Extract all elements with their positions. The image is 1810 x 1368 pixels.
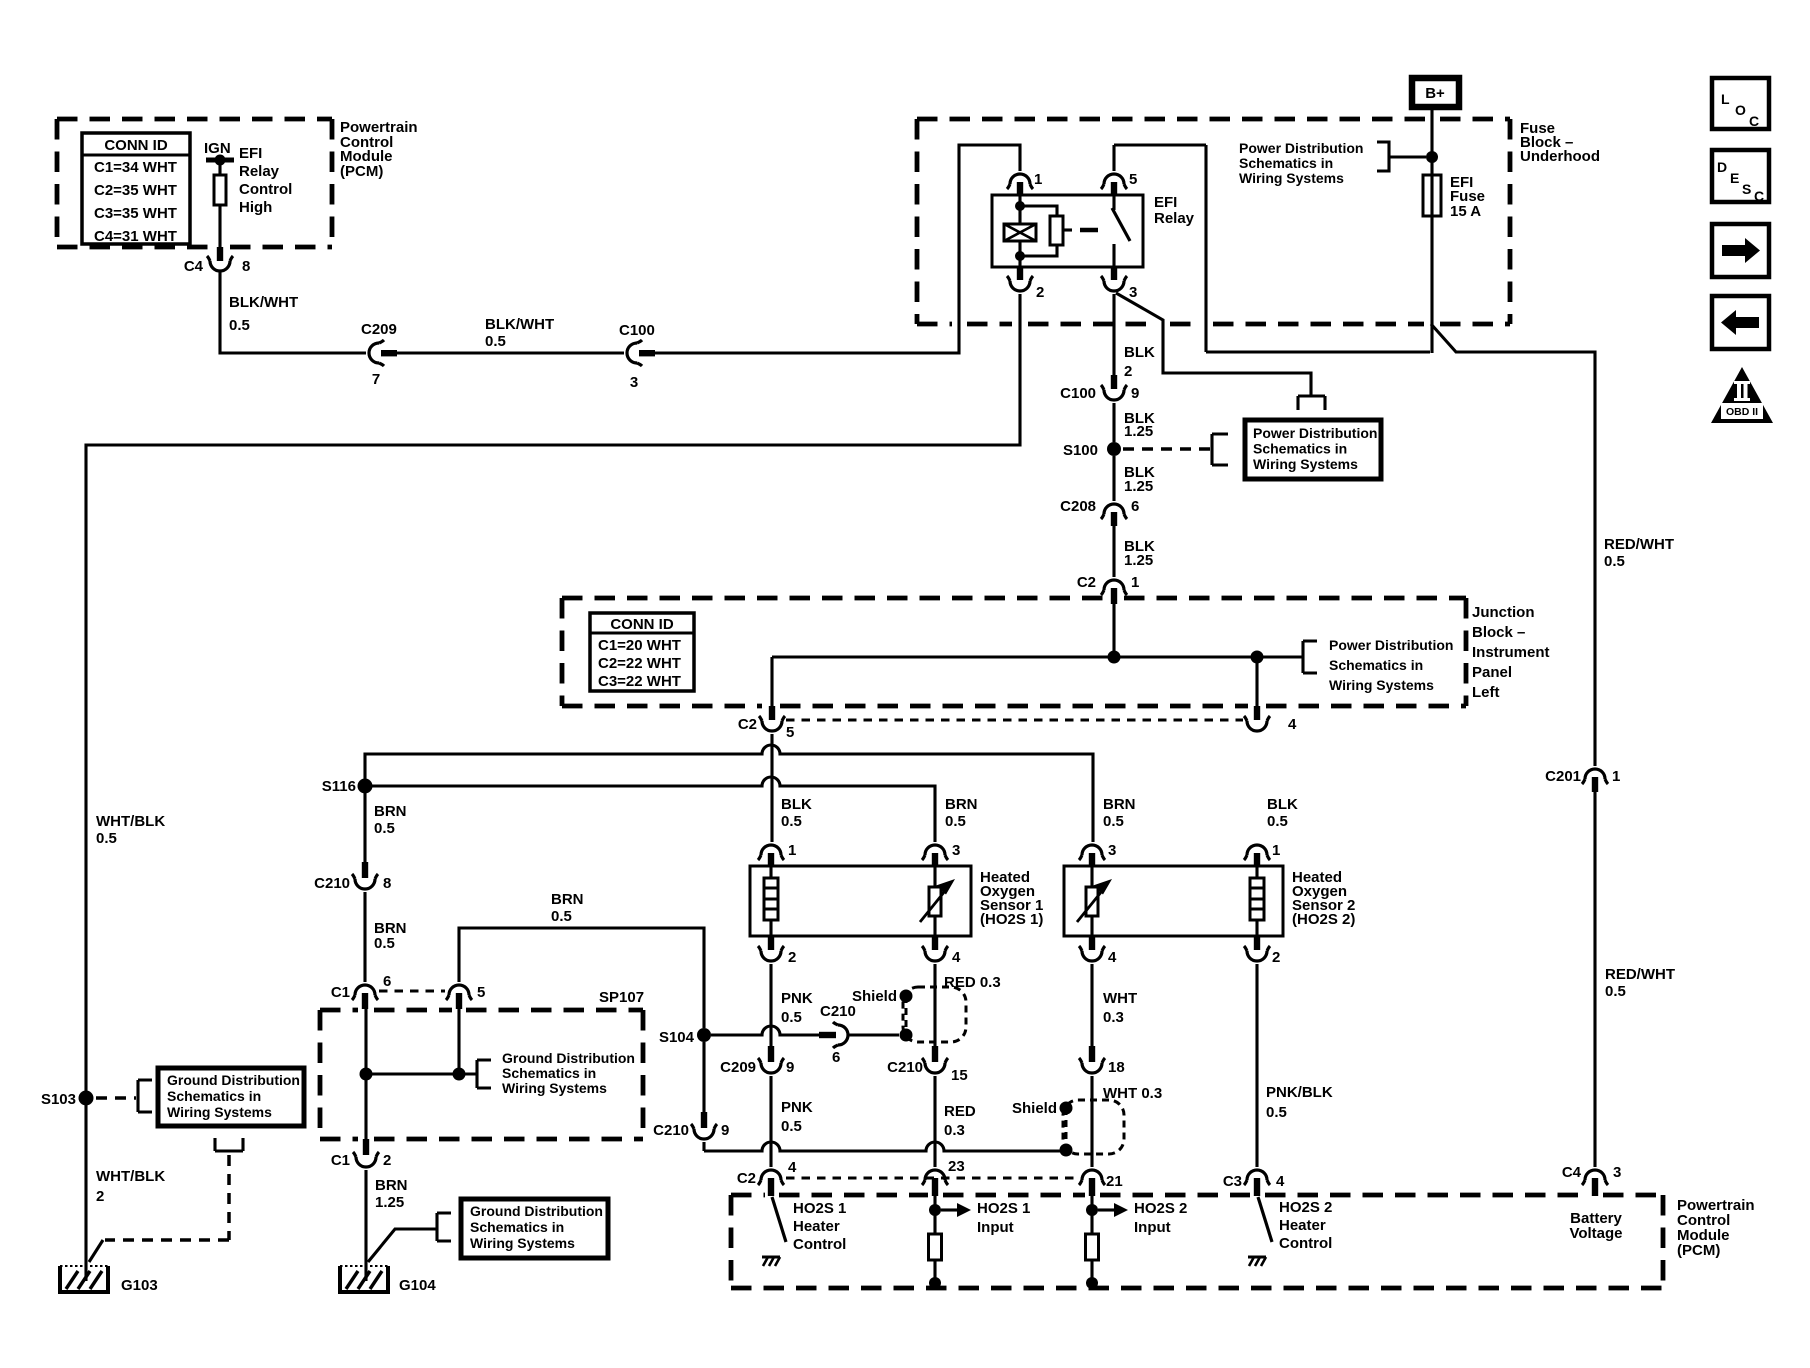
svg-text:RED 0.3: RED 0.3 <box>944 974 1001 991</box>
svg-text:18: 18 <box>1108 1059 1125 1076</box>
svg-text:WHT/BLK: WHT/BLK <box>96 1168 165 1185</box>
svg-text:Wiring Systems: Wiring Systems <box>167 1104 272 1120</box>
svg-text:S104: S104 <box>659 1029 695 1046</box>
svg-text:6: 6 <box>832 1049 840 1066</box>
svg-text:Left: Left <box>1472 684 1500 701</box>
svg-text:CONN ID: CONN ID <box>104 137 168 154</box>
svg-text:2: 2 <box>1124 363 1132 380</box>
svg-text:S100: S100 <box>1063 442 1098 459</box>
svg-text:WHT: WHT <box>1103 990 1137 1007</box>
svg-text:Schematics in: Schematics in <box>502 1065 596 1081</box>
svg-text:0.5: 0.5 <box>781 1118 802 1135</box>
svg-text:Relay: Relay <box>1154 210 1195 227</box>
svg-text:0.5: 0.5 <box>1605 983 1626 1000</box>
svg-text:0.5: 0.5 <box>945 813 966 830</box>
svg-text:S116: S116 <box>322 778 356 795</box>
svg-text:Heater: Heater <box>1279 1217 1326 1234</box>
svg-text:0.5: 0.5 <box>229 317 250 334</box>
svg-text:Wiring Systems: Wiring Systems <box>502 1080 607 1096</box>
svg-text:Power Distribution: Power Distribution <box>1239 140 1363 156</box>
svg-text:RED/WHT: RED/WHT <box>1604 536 1674 553</box>
svg-text:1.25: 1.25 <box>1124 423 1153 440</box>
svg-text:Instrument: Instrument <box>1472 644 1550 661</box>
svg-text:HO2S 2: HO2S 2 <box>1279 1199 1332 1216</box>
svg-text:RED/WHT: RED/WHT <box>1605 966 1675 983</box>
svg-text:BRN: BRN <box>1103 796 1136 813</box>
svg-text:1.25: 1.25 <box>375 1194 404 1211</box>
svg-text:Schematics in: Schematics in <box>1253 441 1347 457</box>
svg-text:O: O <box>1735 102 1746 118</box>
svg-text:3: 3 <box>952 842 960 859</box>
svg-text:Block –: Block – <box>1472 624 1525 641</box>
svg-text:(PCM): (PCM) <box>1677 1242 1720 1259</box>
svg-text:4: 4 <box>952 949 961 966</box>
svg-text:C209: C209 <box>720 1059 756 1076</box>
svg-text:3: 3 <box>1129 284 1137 301</box>
svg-text:C4=31 WHT: C4=31 WHT <box>94 228 177 245</box>
svg-text:Input: Input <box>1134 1219 1171 1236</box>
svg-text:0.5: 0.5 <box>374 935 395 952</box>
svg-text:1: 1 <box>1131 574 1139 591</box>
svg-text:8: 8 <box>242 258 250 275</box>
svg-text:G104: G104 <box>399 1277 436 1294</box>
svg-text:C201: C201 <box>1545 768 1581 785</box>
svg-text:RED: RED <box>944 1103 976 1120</box>
svg-text:0.5: 0.5 <box>485 333 506 350</box>
svg-text:BRN: BRN <box>945 796 978 813</box>
svg-text:Schematics in: Schematics in <box>470 1219 564 1235</box>
svg-text:C: C <box>1749 113 1759 129</box>
svg-text:3: 3 <box>1613 1164 1621 1181</box>
svg-text:HO2S 2: HO2S 2 <box>1134 1200 1187 1217</box>
svg-text:1: 1 <box>788 842 796 859</box>
svg-text:Ground Distribution: Ground Distribution <box>470 1203 603 1219</box>
svg-text:CONN ID: CONN ID <box>610 616 674 633</box>
svg-text:2: 2 <box>96 1188 104 1205</box>
svg-text:C209: C209 <box>361 321 397 338</box>
svg-text:PNK: PNK <box>781 1099 813 1116</box>
svg-text:4: 4 <box>1288 716 1297 733</box>
svg-text:5: 5 <box>786 724 794 741</box>
svg-text:6: 6 <box>383 973 391 990</box>
svg-text:C1: C1 <box>331 984 350 1001</box>
svg-text:C4: C4 <box>1562 1164 1582 1181</box>
svg-text:BRN: BRN <box>375 1177 408 1194</box>
svg-text:D: D <box>1717 159 1727 175</box>
svg-text:6: 6 <box>1131 498 1139 515</box>
svg-text:(HO2S 1): (HO2S 1) <box>980 911 1043 928</box>
svg-text:C3=35 WHT: C3=35 WHT <box>94 205 177 222</box>
svg-text:Voltage: Voltage <box>1569 1225 1622 1242</box>
svg-text:Wiring Systems: Wiring Systems <box>470 1235 575 1251</box>
svg-text:0.5: 0.5 <box>1267 813 1288 830</box>
svg-text:2: 2 <box>1272 949 1280 966</box>
svg-text:PNK/BLK: PNK/BLK <box>1266 1084 1333 1101</box>
svg-text:4: 4 <box>1108 949 1117 966</box>
svg-text:EFI: EFI <box>239 145 262 162</box>
svg-text:0.5: 0.5 <box>1266 1104 1287 1121</box>
svg-text:Junction: Junction <box>1472 604 1535 621</box>
svg-text:C1: C1 <box>331 1152 350 1169</box>
svg-text:1: 1 <box>1272 842 1280 859</box>
svg-text:Underhood: Underhood <box>1520 148 1600 165</box>
svg-text:C4: C4 <box>184 258 204 275</box>
svg-text:C100: C100 <box>619 322 655 339</box>
svg-text:1.25: 1.25 <box>1124 552 1153 569</box>
svg-text:Input: Input <box>977 1219 1014 1236</box>
svg-text:Power Distribution: Power Distribution <box>1253 425 1377 441</box>
svg-text:SP107: SP107 <box>599 989 644 1006</box>
svg-text:PNK: PNK <box>781 990 813 1007</box>
svg-text:Shield: Shield <box>852 988 897 1005</box>
svg-text:C210: C210 <box>887 1059 923 1076</box>
svg-text:WHT 0.3: WHT 0.3 <box>1103 1085 1162 1102</box>
svg-text:23: 23 <box>948 1158 965 1175</box>
svg-text:C2=22 WHT: C2=22 WHT <box>598 655 681 672</box>
svg-text:B+: B+ <box>1425 85 1445 102</box>
svg-text:9: 9 <box>786 1059 794 1076</box>
svg-text:L: L <box>1721 91 1730 107</box>
svg-text:7: 7 <box>372 371 380 388</box>
svg-text:(PCM): (PCM) <box>340 163 383 180</box>
svg-text:Power Distribution: Power Distribution <box>1329 637 1453 653</box>
svg-text:0.5: 0.5 <box>374 820 395 837</box>
svg-text:Wiring Systems: Wiring Systems <box>1329 677 1434 693</box>
svg-text:C3=22 WHT: C3=22 WHT <box>598 673 681 690</box>
svg-text:C1=34 WHT: C1=34 WHT <box>94 159 177 176</box>
svg-text:0.5: 0.5 <box>96 830 117 847</box>
svg-text:Wiring Systems: Wiring Systems <box>1253 456 1358 472</box>
svg-text:Panel: Panel <box>1472 664 1512 681</box>
svg-text:8: 8 <box>383 875 391 892</box>
svg-text:Schematics in: Schematics in <box>167 1088 261 1104</box>
svg-text:BLK/WHT: BLK/WHT <box>229 294 298 311</box>
svg-text:Control: Control <box>239 181 292 198</box>
svg-text:BLK: BLK <box>781 796 812 813</box>
svg-text:Shield: Shield <box>1012 1100 1057 1117</box>
svg-text:HO2S 1: HO2S 1 <box>793 1200 846 1217</box>
svg-text:C210: C210 <box>820 1003 856 1020</box>
svg-text:C2: C2 <box>737 1170 756 1187</box>
svg-text:BRN: BRN <box>374 803 407 820</box>
svg-text:E: E <box>1730 170 1739 186</box>
svg-text:BLK: BLK <box>1124 344 1155 361</box>
svg-text:Ground Distribution: Ground Distribution <box>502 1050 635 1066</box>
svg-text:3: 3 <box>1108 842 1116 859</box>
svg-text:4: 4 <box>788 1159 797 1176</box>
svg-text:Wiring Systems: Wiring Systems <box>1239 170 1344 186</box>
svg-text:C210: C210 <box>314 875 350 892</box>
svg-text:C2: C2 <box>738 716 757 733</box>
svg-text:Schematics in: Schematics in <box>1329 657 1423 673</box>
svg-text:EFI: EFI <box>1154 194 1177 211</box>
svg-text:Ground Distribution: Ground Distribution <box>167 1072 300 1088</box>
svg-text:2: 2 <box>1036 284 1044 301</box>
svg-text:0.3: 0.3 <box>1103 1009 1124 1026</box>
svg-text:Control: Control <box>793 1236 846 1253</box>
svg-text:1.25: 1.25 <box>1124 478 1153 495</box>
svg-text:2: 2 <box>788 949 796 966</box>
svg-text:S103: S103 <box>41 1091 76 1108</box>
svg-text:BLK/WHT: BLK/WHT <box>485 316 554 333</box>
svg-text:(HO2S 2): (HO2S 2) <box>1292 911 1355 928</box>
svg-text:9: 9 <box>721 1122 729 1139</box>
svg-text:HO2S 1: HO2S 1 <box>977 1200 1030 1217</box>
svg-text:C100: C100 <box>1060 385 1096 402</box>
svg-text:C210: C210 <box>653 1122 689 1139</box>
svg-text:0.5: 0.5 <box>1604 553 1625 570</box>
svg-text:3: 3 <box>630 374 638 391</box>
svg-text:1: 1 <box>1034 171 1042 188</box>
svg-text:0.3: 0.3 <box>944 1122 965 1139</box>
svg-text:WHT/BLK: WHT/BLK <box>96 813 165 830</box>
svg-text:5: 5 <box>1129 171 1137 188</box>
svg-text:S: S <box>1742 181 1751 197</box>
svg-text:G103: G103 <box>121 1277 158 1294</box>
svg-text:BRN: BRN <box>551 891 584 908</box>
svg-text:C3: C3 <box>1223 1173 1242 1190</box>
svg-text:15: 15 <box>951 1067 968 1084</box>
svg-text:Schematics in: Schematics in <box>1239 155 1333 171</box>
svg-text:C2: C2 <box>1077 574 1096 591</box>
svg-text:BLK: BLK <box>1267 796 1298 813</box>
svg-text:C: C <box>1754 188 1764 204</box>
svg-text:0.5: 0.5 <box>1103 813 1124 830</box>
svg-text:Relay: Relay <box>239 163 280 180</box>
svg-text:21: 21 <box>1106 1173 1123 1190</box>
svg-text:C208: C208 <box>1060 498 1096 515</box>
svg-text:0.5: 0.5 <box>781 813 802 830</box>
svg-text:C2=35 WHT: C2=35 WHT <box>94 182 177 199</box>
svg-text:OBD II: OBD II <box>1726 406 1758 418</box>
svg-text:5: 5 <box>477 984 485 1001</box>
svg-text:C1=20 WHT: C1=20 WHT <box>598 637 681 654</box>
svg-text:1: 1 <box>1612 768 1620 785</box>
svg-text:0.5: 0.5 <box>551 908 572 925</box>
svg-text:9: 9 <box>1131 385 1139 402</box>
svg-text:15 A: 15 A <box>1450 203 1481 220</box>
svg-text:Control: Control <box>1279 1235 1332 1252</box>
svg-text:IGN: IGN <box>204 140 231 157</box>
svg-text:High: High <box>239 199 272 216</box>
svg-text:2: 2 <box>383 1152 391 1169</box>
svg-text:0.5: 0.5 <box>781 1009 802 1026</box>
svg-text:Heater: Heater <box>793 1218 840 1235</box>
svg-text:4: 4 <box>1276 1173 1285 1190</box>
